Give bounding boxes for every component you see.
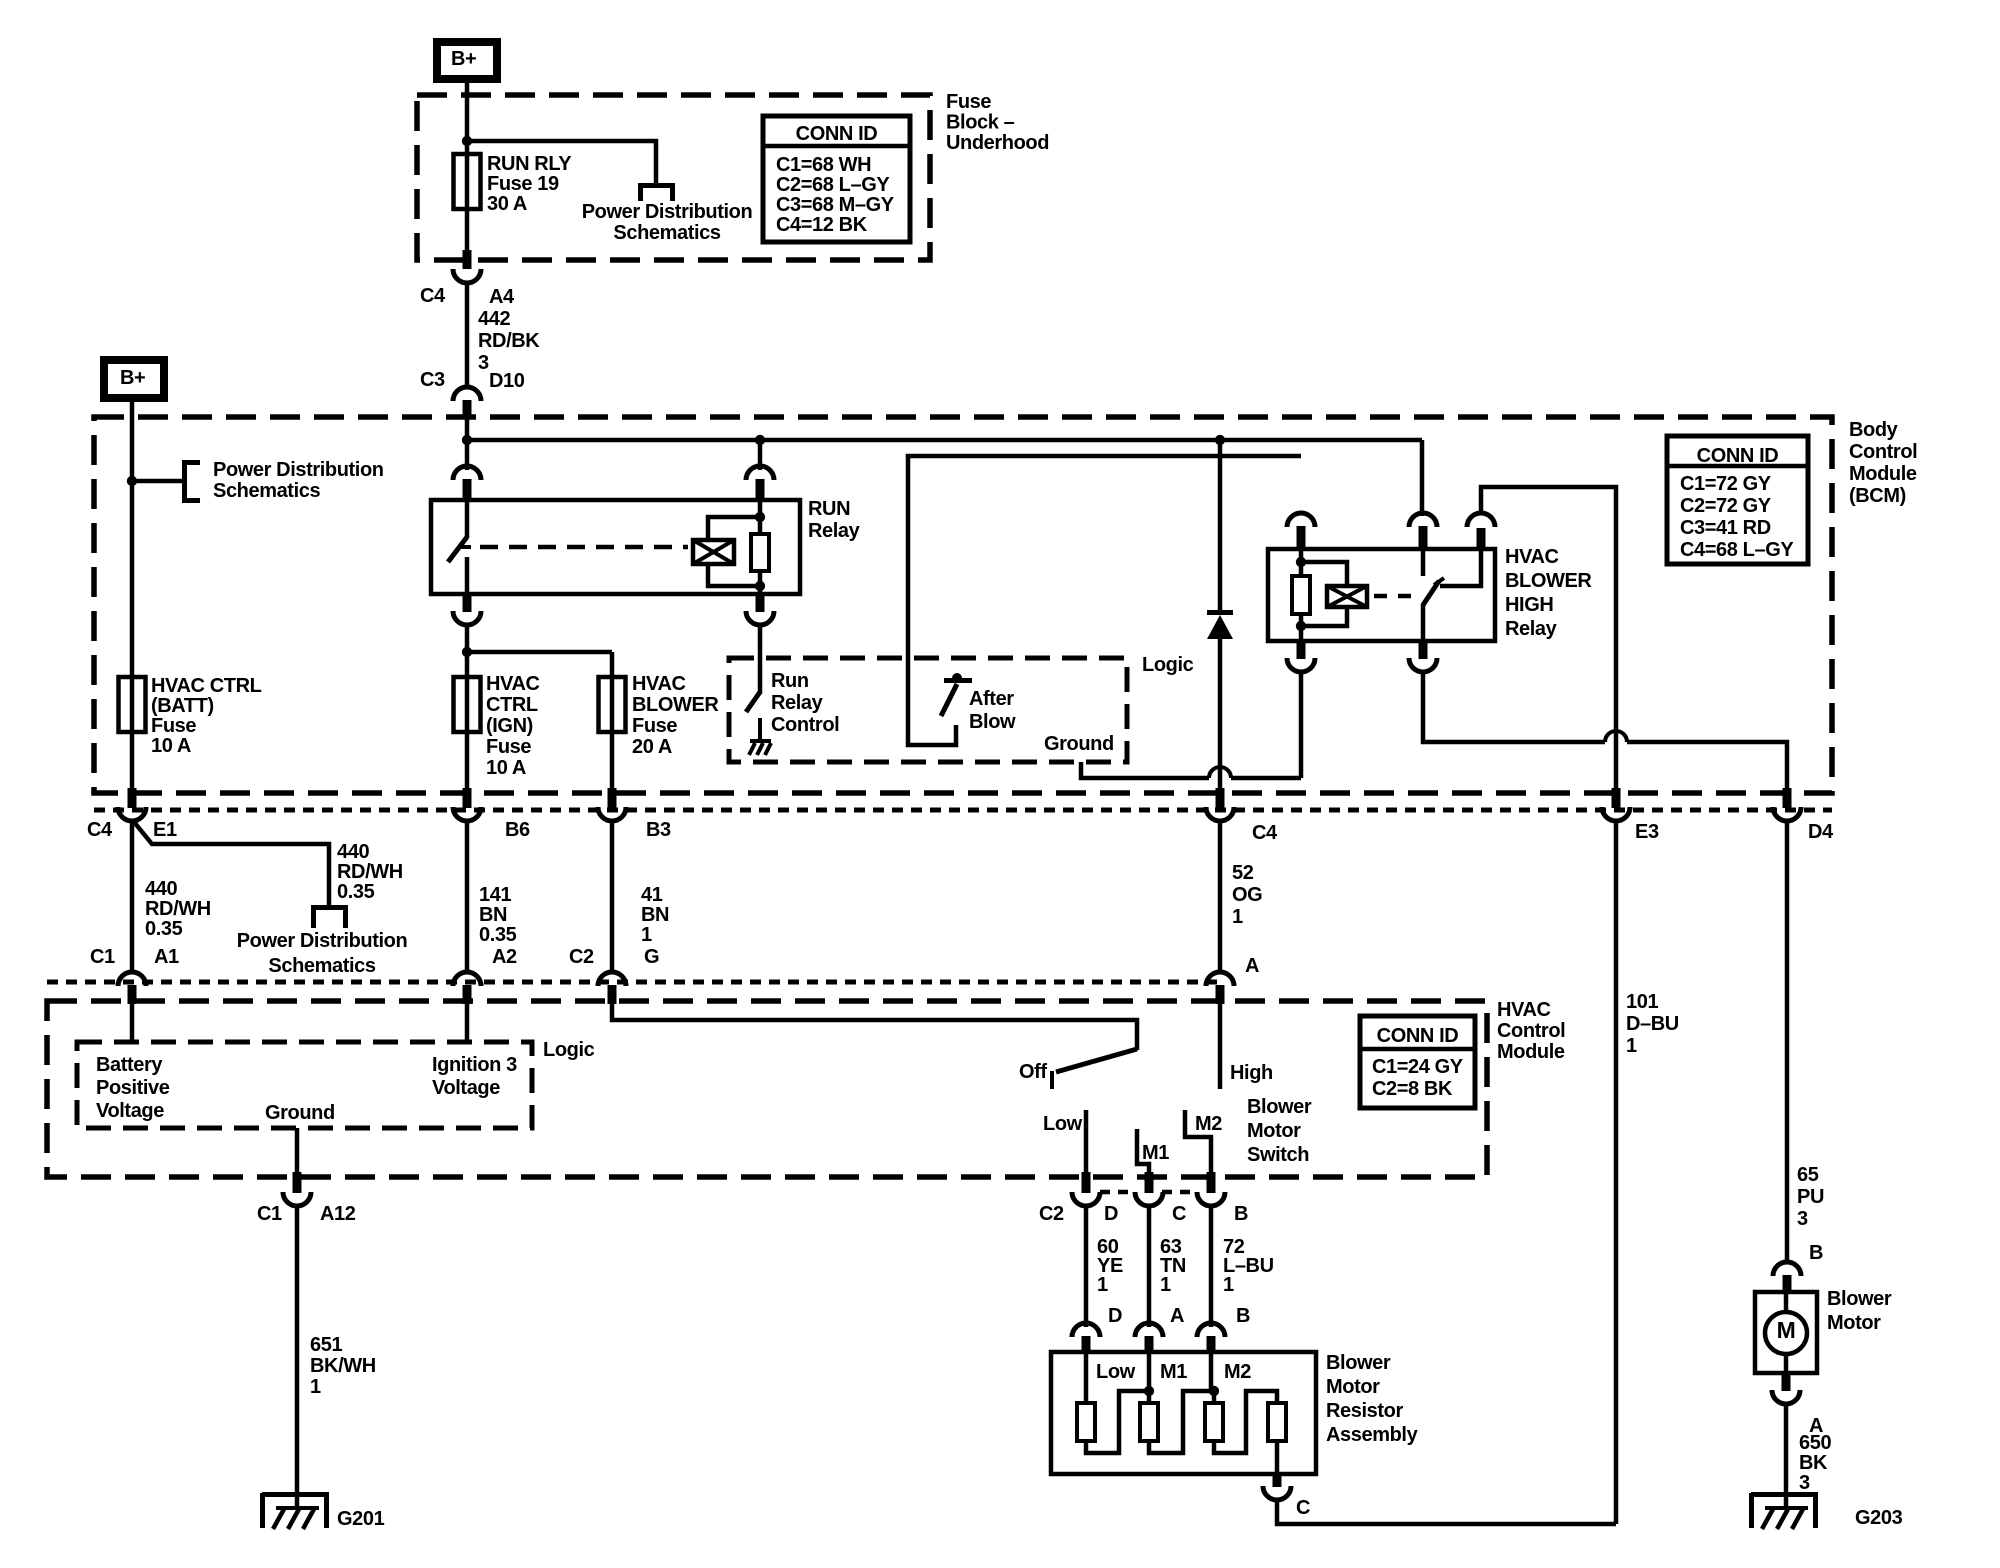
in-line connector C4/A4: [463, 250, 472, 269]
svg-text:High: High: [1230, 1062, 1273, 1084]
svg-text:C1=24 GY: C1=24 GY: [1372, 1056, 1464, 1078]
svg-text:G201: G201: [337, 1508, 385, 1530]
svg-text:C4: C4: [1252, 822, 1278, 844]
svg-text:Low: Low: [1043, 1113, 1083, 1135]
svg-text:M2: M2: [1224, 1361, 1251, 1383]
svg-text:Power Distribution: Power Distribution: [582, 201, 753, 223]
junction node: [1215, 435, 1225, 445]
svg-text:C4=12 BK: C4=12 BK: [776, 214, 868, 236]
in-line connector A (blower motor): [1782, 1371, 1791, 1391]
svg-text:Positive: Positive: [96, 1077, 170, 1099]
svg-text:41: 41: [641, 884, 663, 906]
junction node: [462, 435, 472, 445]
wire 52 OG 1: [1218, 820, 1223, 973]
wire ignition into logic box: [465, 1002, 470, 1042]
svg-text:BK/WH: BK/WH: [310, 1355, 376, 1377]
in-line connector at BCM bottom x=612: [608, 788, 617, 808]
svg-text:Logic: Logic: [543, 1039, 595, 1061]
svg-text:Power Distribution: Power Distribution: [213, 459, 384, 481]
in-line connector resistor assembly x=1149: [1135, 1323, 1163, 1337]
junction node: [755, 435, 765, 445]
svg-text:G203: G203: [1855, 1507, 1903, 1529]
in-line connector resistor assembly x=1211: [1197, 1323, 1225, 1337]
blower motor symbol: [1784, 1292, 1789, 1313]
RUN relay switch: [465, 502, 470, 538]
svg-text:1: 1: [1232, 906, 1243, 928]
svg-text:Schematics: Schematics: [613, 222, 720, 244]
in-line connector blower switch out x=1211: [1207, 1172, 1216, 1193]
fuse F19 RUN RLY 30A: [454, 154, 481, 209]
svg-text:Ground: Ground: [265, 1102, 335, 1124]
wire 650 BK 3 to G203: [1784, 1403, 1789, 1509]
wire HVAC relay output to E3: [1481, 487, 1616, 789]
svg-text:D4: D4: [1808, 821, 1834, 843]
svg-text:C4: C4: [87, 819, 113, 841]
svg-text:C2=8 BK: C2=8 BK: [1372, 1078, 1453, 1100]
svg-text:C: C: [1296, 1497, 1310, 1519]
svg-text:A: A: [1170, 1305, 1184, 1327]
Body Control Module (BCM) dashed box: [94, 417, 1832, 793]
svg-text:RD/BK: RD/BK: [478, 330, 540, 352]
RUN relay coil resistor: [751, 534, 769, 571]
svg-text:1: 1: [1160, 1274, 1171, 1296]
svg-text:440: 440: [337, 841, 369, 863]
resistor R-low: [1077, 1403, 1095, 1441]
svg-text:Motor: Motor: [1326, 1376, 1380, 1398]
svg-text:D: D: [1104, 1203, 1118, 1225]
in-line connector at HVAC top x=132: [118, 972, 146, 986]
svg-text:Block –: Block –: [946, 112, 1015, 134]
svg-text:Relay: Relay: [1505, 618, 1558, 640]
wire resistor out to E3 junction: [1277, 1499, 1616, 1524]
ground marker (run relay control): [750, 739, 771, 743]
in-line connector RUN relay pin 3: [463, 592, 472, 612]
svg-text:HVAC: HVAC: [1497, 999, 1551, 1021]
svg-text:(IGN): (IGN): [486, 715, 533, 737]
blower switch M2 contact: [1185, 1110, 1211, 1174]
junction node: [1209, 1386, 1219, 1396]
svg-text:Relay: Relay: [771, 692, 824, 714]
wire 651 BK/WH 1 to G201: [295, 1205, 300, 1509]
svg-text:B+: B+: [120, 367, 145, 389]
fuse HVAC CTRL (BATT) 10A: [119, 677, 146, 732]
resistor R-M1: [1140, 1403, 1158, 1441]
svg-text:1: 1: [1626, 1035, 1637, 1057]
in-line connector blower switch out x=1149: [1145, 1172, 1154, 1193]
After Blow switch: [944, 678, 972, 683]
svg-text:HIGH: HIGH: [1505, 594, 1553, 616]
in-line connector C1/A12: [293, 1172, 302, 1193]
svg-text:HVAC: HVAC: [632, 673, 686, 695]
blower switch M1 contact: [1137, 1129, 1149, 1174]
svg-text:M: M: [1777, 1317, 1796, 1343]
wire to power distribution bracket: [132, 479, 184, 484]
svg-text:Fuse 19: Fuse 19: [487, 173, 559, 195]
svg-text:D–BU: D–BU: [1626, 1013, 1679, 1035]
wire 72 L-BU 1: [1209, 1205, 1214, 1327]
svg-text:OG: OG: [1232, 884, 1262, 906]
svg-text:M2: M2: [1195, 1113, 1222, 1135]
wire 60 YE 1: [1084, 1205, 1089, 1327]
svg-text:CONN ID: CONN ID: [1697, 445, 1779, 467]
svg-text:C1: C1: [257, 1203, 282, 1225]
svg-text:1: 1: [310, 1376, 321, 1398]
svg-text:Module: Module: [1497, 1041, 1565, 1063]
svg-text:RUN RLY: RUN RLY: [487, 153, 572, 175]
svg-text:C2=72 GY: C2=72 GY: [1680, 495, 1772, 517]
CONN ID table (HVAC): [1360, 1016, 1475, 1108]
Logic dashed box (BCM): [729, 658, 1127, 762]
svg-text:Low: Low: [1096, 1361, 1136, 1383]
Fuse Block - Underhood dashed box: [417, 95, 930, 260]
in-line connector resistor assembly x=1086: [1072, 1323, 1100, 1337]
svg-text:52: 52: [1232, 862, 1254, 884]
svg-text:Motor: Motor: [1827, 1312, 1881, 1334]
HVAC relay mechanical link (dashed): [1374, 594, 1411, 599]
BCM C1-C4 connector row (dotted): [94, 808, 1832, 813]
svg-text:E1: E1: [153, 819, 177, 841]
svg-text:BLOWER: BLOWER: [632, 694, 719, 716]
connector C2 dashed link: [1100, 1190, 1136, 1195]
svg-text:Underhood: Underhood: [946, 132, 1049, 154]
svg-text:Battery: Battery: [96, 1054, 163, 1076]
svg-text:101: 101: [1626, 991, 1658, 1013]
wire 101 D-BU 1 (E3): [1614, 820, 1619, 1524]
svg-text:HVAC: HVAC: [486, 673, 540, 695]
wire to power distribution symbol: [467, 141, 656, 185]
svg-text:A12: A12: [320, 1203, 356, 1225]
svg-text:65: 65: [1797, 1164, 1819, 1186]
in-line connector at BCM bottom x=132: [128, 788, 137, 808]
fuse HVAC BLOWER 20A: [599, 677, 626, 732]
svg-text:BK: BK: [1799, 1452, 1828, 1474]
svg-text:Resistor: Resistor: [1326, 1400, 1403, 1422]
wire B+ to fuse 19: [465, 83, 470, 252]
in-line connector at HVAC top x=612: [598, 972, 626, 986]
diode: [1218, 440, 1223, 610]
svg-text:D10: D10: [489, 370, 525, 392]
svg-text:3: 3: [1799, 1472, 1810, 1494]
svg-text:B: B: [1236, 1305, 1250, 1327]
svg-text:(BATT): (BATT): [151, 695, 214, 717]
CONN ID table (fuse block): [763, 116, 910, 242]
svg-text:A1: A1: [154, 946, 179, 968]
svg-text:RD/WH: RD/WH: [145, 898, 211, 920]
Blower Motor box: [1755, 1292, 1817, 1373]
blower switch High contact: [1218, 1004, 1223, 1089]
junction node: [1144, 1386, 1154, 1396]
svg-text:Ground: Ground: [1044, 733, 1114, 755]
svg-text:3: 3: [478, 352, 489, 374]
svg-text:M1: M1: [1142, 1142, 1169, 1164]
wire 41 BN 1: [610, 820, 615, 973]
RUN relay coil: [758, 502, 763, 594]
HVAC Control Module dashed box: [47, 1001, 1487, 1177]
in-line connector at BCM bottom x=1616: [1612, 788, 1621, 808]
svg-text:Module: Module: [1849, 463, 1917, 485]
HVAC relay coil: [1299, 551, 1304, 641]
svg-text:Control: Control: [1849, 441, 1917, 463]
wire After Blow feed: [908, 456, 1301, 745]
svg-text:Fuse: Fuse: [632, 715, 677, 737]
ground wire out of logic box: [295, 1128, 300, 1174]
svg-text:Body: Body: [1849, 419, 1899, 441]
svg-text:E3: E3: [1635, 821, 1659, 843]
svg-text:B+: B+: [451, 48, 476, 70]
svg-text:Fuse: Fuse: [946, 91, 991, 113]
in-line connector HVAC relay common pin: [1419, 639, 1428, 659]
in-line connector at BCM bottom x=1220: [1216, 788, 1225, 808]
svg-text:Switch: Switch: [1247, 1144, 1309, 1166]
wire B+ left into BCM: [130, 402, 135, 732]
resistor R-high: [1268, 1403, 1286, 1441]
svg-text:1: 1: [1223, 1274, 1234, 1296]
svg-text:Schematics: Schematics: [213, 480, 320, 502]
svg-text:C2: C2: [569, 946, 594, 968]
svg-text:CONN ID: CONN ID: [1377, 1025, 1459, 1047]
svg-text:30 A: 30 A: [487, 193, 527, 215]
svg-text:C3=68 M–GY: C3=68 M–GY: [776, 194, 895, 216]
HVAC relay switch: [1421, 551, 1426, 576]
HVAC relay coil resistor: [1292, 576, 1310, 614]
wire HVAC relay coil to logic ground: [1299, 671, 1304, 778]
junction node: [462, 136, 472, 146]
resistor R-M2: [1205, 1403, 1223, 1441]
wire 63 TN 1: [1147, 1205, 1152, 1327]
svg-text:BLOWER: BLOWER: [1505, 570, 1592, 592]
blower switch Low contact: [1084, 1110, 1089, 1174]
svg-text:Blower: Blower: [1326, 1352, 1391, 1374]
svg-text:CTRL: CTRL: [486, 694, 538, 716]
svg-text:B: B: [1234, 1203, 1248, 1225]
svg-text:B: B: [1809, 1242, 1823, 1264]
wire 41 BN to Off switch: [612, 1002, 1137, 1050]
wire main feed bus y=440: [465, 417, 470, 470]
in-line connector at BCM bottom x=467: [463, 788, 472, 808]
svg-text:B6: B6: [505, 819, 530, 841]
svg-text:C1=68 WH: C1=68 WH: [776, 154, 871, 176]
wire 141 BN 0.35 (ignition): [465, 820, 470, 973]
power distribution schematics bracket (BCM): [182, 460, 187, 503]
svg-text:Control: Control: [1497, 1020, 1565, 1042]
in-line connector A (52 OG): [1206, 972, 1234, 986]
svg-text:C2=68 L–GY: C2=68 L–GY: [776, 174, 890, 196]
svg-text:BN: BN: [641, 904, 669, 926]
svg-text:C3=41 RD: C3=41 RD: [1680, 517, 1771, 539]
svg-text:PU: PU: [1797, 1186, 1824, 1208]
wire 442 RD/BK 3: [465, 282, 470, 389]
svg-text:141: 141: [479, 884, 511, 906]
svg-text:Off: Off: [1019, 1061, 1047, 1083]
wire battery into logic box: [130, 1002, 135, 1042]
svg-text:20 A: 20 A: [632, 736, 672, 758]
logic inner dashed box: [77, 1042, 532, 1128]
svg-text:Relay: Relay: [808, 520, 861, 542]
wire drop to HVAC relay switch contact: [1420, 440, 1425, 516]
svg-text:RUN: RUN: [808, 498, 850, 520]
wire RUN relay coil to Run Relay Control: [758, 624, 763, 694]
wire 440 RD/WH to power distribution: [134, 822, 329, 906]
svg-text:C2: C2: [1039, 1203, 1064, 1225]
svg-text:RD/WH: RD/WH: [337, 861, 403, 883]
HVAC control module connector row (dotted): [47, 980, 1221, 985]
svg-text:Schematics: Schematics: [268, 955, 375, 977]
svg-text:1: 1: [641, 924, 652, 946]
in-line connector HVAC relay output pin: [1477, 528, 1486, 551]
svg-text:Power Distribution: Power Distribution: [237, 930, 408, 952]
svg-text:C4: C4: [420, 285, 446, 307]
wire HVAC relay common to D4: [1423, 671, 1605, 742]
in-line connector C3/D10: [453, 387, 481, 401]
svg-text:C1=72 GY: C1=72 GY: [1680, 473, 1772, 495]
svg-text:Run: Run: [771, 670, 809, 692]
wire 440 RD/WH 0.35 (battery): [130, 820, 135, 973]
svg-text:1: 1: [1097, 1274, 1108, 1296]
svg-text:C3: C3: [420, 369, 445, 391]
svg-text:440: 440: [145, 878, 177, 900]
resistor network: [1084, 1354, 1089, 1403]
svg-text:G: G: [644, 946, 659, 968]
in-line connector RUN relay pin 4: [756, 592, 765, 612]
Blower Motor Resistor Assembly box: [1051, 1352, 1316, 1474]
ground G201: [262, 1492, 329, 1497]
svg-text:D: D: [1108, 1305, 1122, 1327]
in-line connector RUN relay pin 2 (coil): [746, 466, 774, 480]
svg-text:Fuse: Fuse: [151, 715, 196, 737]
junction node: [462, 647, 472, 657]
in-line connector RUN relay pin 1 (switch): [453, 466, 481, 480]
svg-text:0.35: 0.35: [337, 881, 375, 903]
in-line connector B (blower motor): [1773, 1262, 1801, 1276]
svg-text:A2: A2: [492, 946, 517, 968]
svg-text:C: C: [1172, 1203, 1186, 1225]
svg-text:B3: B3: [646, 819, 671, 841]
RUN relay mechanical link (dashed): [480, 545, 688, 550]
svg-text:10 A: 10 A: [486, 757, 526, 779]
RUN relay box: [431, 500, 800, 594]
svg-text:Motor: Motor: [1247, 1120, 1301, 1142]
svg-text:Assembly: Assembly: [1326, 1424, 1419, 1446]
svg-text:M1: M1: [1160, 1361, 1187, 1383]
junction node: [127, 476, 137, 486]
svg-text:0.35: 0.35: [145, 918, 183, 940]
svg-text:442: 442: [478, 308, 510, 330]
HVAC BLOWER HIGH relay box: [1268, 549, 1495, 641]
power node B+ (top): [433, 38, 501, 83]
svg-text:C4=68 L–GY: C4=68 L–GY: [1680, 539, 1794, 561]
CONN ID table (BCM): [1667, 436, 1808, 564]
Run Relay Control switch: [746, 692, 760, 712]
svg-text:BN: BN: [479, 904, 507, 926]
power node B+ (left): [100, 356, 168, 402]
wire RUN relay to IGN/BLOWER fuses: [465, 624, 470, 732]
svg-text:C1: C1: [90, 946, 115, 968]
blower switch Off position: [1056, 1049, 1137, 1072]
svg-text:0.35: 0.35: [479, 924, 517, 946]
svg-text:Blower: Blower: [1247, 1096, 1312, 1118]
in-line connector HVAC relay switch pin: [1409, 513, 1437, 527]
svg-text:Logic: Logic: [1142, 654, 1194, 676]
svg-text:A4: A4: [489, 286, 515, 308]
svg-text:651: 651: [310, 1334, 342, 1356]
ground G203: [1751, 1492, 1818, 1497]
svg-text:(BCM): (BCM): [1849, 485, 1906, 507]
svg-text:Blow: Blow: [969, 711, 1016, 733]
in-line connector HVAC relay coil pin: [1287, 513, 1315, 527]
in-line connector at HVAC top x=467: [453, 972, 481, 986]
svg-text:650: 650: [1799, 1432, 1831, 1454]
svg-text:Voltage: Voltage: [432, 1077, 500, 1099]
svg-text:HVAC: HVAC: [1505, 546, 1559, 568]
power distribution schematics symbol (below E1): [311, 905, 348, 910]
wire 65 PU 3 (D4): [1785, 820, 1790, 1263]
svg-text:Blower: Blower: [1827, 1288, 1892, 1310]
in-line connector blower switch out x=1086: [1082, 1172, 1091, 1193]
svg-text:3: 3: [1797, 1208, 1808, 1230]
svg-text:Voltage: Voltage: [96, 1100, 164, 1122]
svg-text:10 A: 10 A: [151, 735, 191, 757]
svg-text:HVAC CTRL: HVAC CTRL: [151, 675, 262, 697]
in-line connector C (resistor out): [1273, 1472, 1282, 1487]
svg-text:Control: Control: [771, 714, 839, 736]
in-line connector HVAC relay coil low pin: [1297, 639, 1306, 659]
fuse HVAC CTRL (IGN) 10A: [454, 677, 481, 732]
svg-text:After: After: [969, 688, 1014, 710]
svg-text:CONN ID: CONN ID: [796, 123, 878, 145]
in-line connector at BCM bottom x=1787: [1783, 788, 1792, 808]
svg-text:A: A: [1245, 955, 1259, 977]
svg-text:Fuse: Fuse: [486, 736, 531, 758]
power distribution schematics symbol (fuse block): [638, 183, 675, 188]
svg-text:Ignition 3: Ignition 3: [432, 1054, 517, 1076]
